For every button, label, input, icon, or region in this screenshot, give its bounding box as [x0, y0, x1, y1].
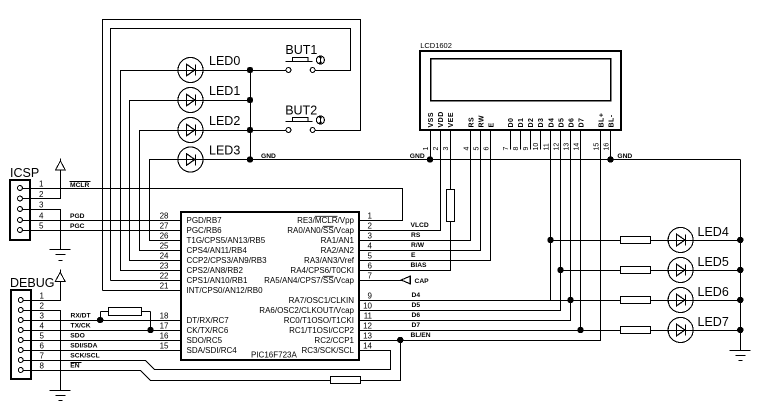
DEBUG pin 4 circle — [18, 328, 23, 333]
LCD pin 9 name label — [528, 118, 535, 128]
wire LED0 cathode to BUT1 — [204, 70, 287, 72]
LCD pin 13 number — [563, 143, 570, 151]
svg-text:LED1: LED1 — [209, 84, 240, 98]
label net D4 — [412, 292, 421, 299]
label net GND (left) — [261, 153, 276, 160]
ICSP pin 2 circle — [18, 196, 23, 201]
PIC pin 25 number — [160, 242, 169, 251]
PIC pin 22 number — [160, 272, 169, 281]
svg-text:27: 27 — [160, 222, 169, 231]
ICSP pin 3 number — [39, 201, 44, 210]
label net SDO — [70, 333, 85, 340]
wire resistor to LED6 — [651, 300, 669, 302]
PIC pin 7 number — [368, 272, 373, 281]
label DEBUG — [10, 276, 54, 290]
svg-text:LED7: LED7 — [698, 315, 729, 329]
LCD pin 3 name label — [448, 112, 455, 128]
wire net BL/EN (PIC pin13 to LCD BL+) — [360, 131, 601, 341]
LCD pin 7 number — [503, 147, 510, 151]
ICSP pin 1 circle — [18, 186, 23, 191]
junction LED6/GND rail — [738, 297, 743, 302]
wire net VLCD (PIC pin2 to LCD VDD) — [360, 131, 441, 231]
svg-text:17: 17 — [160, 322, 169, 331]
LCD pin 13 name label — [568, 118, 575, 128]
svg-text:LED4: LED4 — [698, 225, 729, 239]
svg-text:LED2: LED2 — [209, 114, 240, 128]
wire LED7 cathode to rail — [694, 330, 741, 332]
PIC pin 23 name — [187, 266, 244, 275]
svg-text:RS: RS — [468, 117, 475, 128]
wire LCD pin2 stub — [440, 130, 442, 132]
wire LCD pin16 BL- to GND rail — [610, 130, 612, 160]
DEBUG pin 7 number — [40, 352, 45, 361]
LCD pin 6 name label — [488, 122, 495, 127]
wire net TX/CK (DEBUG pin4 to PIC pin17) — [24, 330, 182, 332]
label net R/W — [411, 242, 425, 249]
wire net CAP (PIC pin7) — [360, 280, 402, 282]
label net RS — [411, 232, 421, 239]
svg-text:VEE: VEE — [448, 112, 455, 128]
PIC pin 10 number — [363, 302, 372, 311]
PIC pin 26 number — [160, 232, 169, 241]
junction VSS/GND — [427, 157, 432, 162]
LCD pin 2 number — [433, 147, 440, 151]
PIC pin 13 number — [363, 332, 372, 341]
LCD pin 5 name label — [478, 115, 485, 128]
ICSP pin 5 circle — [18, 228, 23, 233]
junction LED3/GND rail — [247, 157, 252, 162]
PIC pin 5 number — [368, 252, 373, 261]
label net RX/DT — [71, 313, 92, 320]
wire net LED3 anode — [150, 160, 182, 241]
PIC pin 6 name — [290, 266, 354, 275]
svg-text:CAP: CAP — [415, 278, 430, 285]
power VCC arrow (ICSP) — [55, 159, 65, 171]
svg-text:RC2/CCP1: RC2/CCP1 — [314, 336, 354, 345]
DEBUG pin 6 circle — [18, 348, 23, 353]
svg-text:7: 7 — [368, 272, 373, 281]
PIC pin 15 name — [187, 346, 238, 355]
DEBUG pin 7 circle — [18, 358, 23, 363]
resistor R5 (LED5) — [621, 267, 651, 274]
svg-text:15: 15 — [160, 342, 169, 351]
junction D7/LED7 — [578, 327, 583, 332]
svg-text:2: 2 — [368, 222, 373, 231]
wire LED cathode bus vertical — [250, 71, 252, 160]
svg-text:CPS1/AN10/RB1: CPS1/AN10/RB1 — [187, 276, 248, 285]
junction LED7/GND rail — [738, 327, 743, 332]
LED LED7 — [668, 318, 693, 343]
ICSP pin 1 number — [39, 180, 44, 189]
label net BIAS — [411, 262, 428, 269]
svg-text:TX/CK: TX/CK — [71, 323, 91, 330]
svg-text:16: 16 — [603, 143, 610, 151]
PIC pin 12 name — [289, 326, 354, 335]
svg-text:LED5: LED5 — [698, 255, 729, 269]
PIC pin 24 name — [187, 256, 268, 265]
svg-text:11: 11 — [364, 312, 373, 321]
svg-text:RA6/OSC2/CLKOUT/Vcap: RA6/OSC2/CLKOUT/Vcap — [259, 306, 354, 315]
pushbutton BUT2 — [286, 116, 325, 132]
PIC pin 17 name — [187, 326, 229, 335]
PIC pin 28 name — [187, 216, 223, 225]
svg-text:PGC: PGC — [70, 223, 85, 230]
svg-text:26: 26 — [160, 232, 169, 241]
svg-text:LED3: LED3 — [209, 144, 240, 158]
label LCD1602 — [420, 41, 452, 50]
PIC pin 5 name — [304, 256, 355, 265]
svg-text:D0: D0 — [508, 118, 515, 128]
svg-text:5: 5 — [39, 222, 44, 231]
svg-text:10: 10 — [363, 302, 372, 311]
svg-text:PGD/RB7: PGD/RB7 — [187, 216, 223, 225]
junction BL/EN at PIC pin13 — [398, 337, 403, 342]
LCD pin 14 name label — [578, 118, 585, 128]
svg-text:22: 22 — [160, 272, 169, 281]
PIC pin 27 number — [160, 222, 169, 231]
PIC pin 4 name — [321, 246, 355, 255]
LCD pin 5 number — [473, 147, 480, 151]
wire net D5 (PIC pin10 to LCD D5) — [360, 131, 561, 311]
label net D7 — [412, 322, 421, 329]
ICSP pin 4 number — [39, 212, 44, 221]
LCD pin 16 number — [603, 143, 610, 151]
junction RX/DT resistor tap — [98, 317, 103, 322]
PIC pin 11 number — [364, 312, 373, 321]
svg-text:CK/TX/RC6: CK/TX/RC6 — [187, 326, 229, 335]
ground symbol (DEBUG) — [50, 391, 71, 401]
svg-text:RA2/AN2: RA2/AN2 — [321, 246, 355, 255]
svg-text:LCD1602: LCD1602 — [420, 41, 452, 50]
DEBUG pin 2 number — [40, 302, 45, 311]
svg-text:25: 25 — [160, 242, 169, 251]
LED LED5 — [668, 258, 693, 283]
LCD pin 6 number — [483, 147, 490, 151]
svg-text:8: 8 — [40, 362, 45, 371]
wire ICSP pin2 to VCC — [23, 171, 61, 199]
svg-text:4: 4 — [39, 212, 44, 221]
svg-text:3: 3 — [39, 201, 44, 210]
PIC pin 4 number — [368, 242, 373, 251]
svg-text:RC3/SCK/SCL: RC3/SCK/SCL — [302, 346, 355, 355]
svg-text:13: 13 — [563, 143, 570, 151]
svg-text:D2: D2 — [528, 118, 535, 128]
svg-text:D7: D7 — [578, 118, 585, 128]
svg-text:GND: GND — [617, 153, 632, 160]
LCD pin 12 number — [553, 143, 560, 151]
pushbutton BUT1 — [286, 56, 325, 72]
PIC pin 2 name — [287, 226, 354, 235]
LCD pin 1 name label — [428, 112, 435, 128]
svg-text:D7: D7 — [412, 322, 421, 329]
label PIC16F723A — [251, 351, 297, 360]
resistor R1 (RX-TX) — [101, 308, 151, 331]
label LED7 — [698, 315, 729, 329]
PIC pin 14 name — [302, 346, 355, 355]
svg-text:11: 11 — [543, 143, 550, 150]
svg-text:VLCD: VLCD — [411, 222, 429, 229]
svg-text:24: 24 — [160, 252, 169, 261]
wire LCD pin 9 stub — [530, 130, 532, 150]
svg-text:PGC/RB6: PGC/RB6 — [187, 226, 223, 235]
svg-text:CPS4/AN11/RB4: CPS4/AN11/RB4 — [187, 246, 248, 255]
DEBUG pin 3 number — [40, 312, 45, 321]
svg-text:D5: D5 — [412, 302, 421, 309]
wire ICSP pin3 to GND — [23, 210, 61, 250]
wire net SCK/SCL (DEBUG pin7 to PIC pin14) — [24, 351, 391, 370]
LCD pin 1 number — [423, 147, 430, 151]
wire DEBUG pin1 to VCC — [24, 282, 61, 301]
svg-text:1: 1 — [40, 292, 45, 301]
label net PGC — [70, 223, 85, 230]
svg-text:D4: D4 — [412, 292, 421, 299]
LCD pin 11 number — [543, 143, 550, 150]
svg-text:RE3/MCLR/Vpp: RE3/MCLR/Vpp — [297, 216, 354, 225]
wire LCD pin 10 stub — [540, 130, 542, 150]
junction LED4/GND rail — [738, 237, 743, 242]
svg-text:10: 10 — [533, 143, 540, 151]
svg-text:D1: D1 — [518, 118, 525, 128]
svg-text:MCLR: MCLR — [70, 182, 89, 189]
svg-text:5: 5 — [40, 332, 45, 341]
wire LED5 row — [561, 270, 621, 272]
svg-text:1: 1 — [368, 212, 373, 221]
wire resistor to LED5 — [651, 270, 669, 272]
svg-text:16: 16 — [160, 332, 169, 341]
wire resistor to LED7 — [651, 330, 669, 332]
svg-text:BL+: BL+ — [598, 113, 605, 128]
PIC pin 17 number — [160, 322, 169, 331]
PIC pin 15 number — [160, 342, 169, 351]
wire LED2 cathode to BUT2 — [204, 130, 287, 132]
LCD pin 8 name label — [518, 118, 525, 128]
svg-text:1: 1 — [39, 180, 44, 189]
wire net LED1 anode — [130, 101, 182, 261]
PIC pin 10 name — [259, 306, 354, 315]
resistor R7 (LED7) — [621, 327, 651, 334]
svg-text:RA4/CPS6/T0CKI: RA4/CPS6/T0CKI — [290, 266, 354, 275]
label LED0 — [209, 54, 240, 68]
wire net E (PIC pin5 to LCD E) — [360, 131, 491, 261]
wire pin 22 stub — [111, 280, 182, 282]
PIC pin 11 name — [284, 316, 354, 325]
wire net D7 (PIC pin12 to LED7 resistor) — [360, 330, 621, 332]
svg-text:3: 3 — [443, 147, 450, 151]
svg-text:BUT1: BUT1 — [285, 43, 317, 57]
PIC pin 16 name — [187, 336, 223, 345]
junction LED0 row — [247, 67, 252, 72]
wire GND right rail — [740, 160, 742, 351]
connector DEBUG body — [11, 290, 31, 379]
svg-text:D6: D6 — [412, 312, 421, 319]
svg-text:RC0/T1OSO/T1CKI: RC0/T1OSO/T1CKI — [284, 316, 354, 325]
label net SCK/SCL — [70, 352, 99, 359]
DEBUG pin 5 number — [40, 332, 45, 341]
svg-text:5: 5 — [473, 147, 480, 151]
PIC pin 25 name — [187, 246, 248, 255]
junction LED2 row — [247, 127, 252, 132]
svg-text:RA0/AN0/SS/Vcap: RA0/AN0/SS/Vcap — [287, 226, 354, 235]
svg-text:RW: RW — [478, 115, 485, 128]
svg-text:7: 7 — [40, 352, 45, 361]
wire net GND rail — [204, 159, 741, 161]
svg-text:LED0: LED0 — [209, 54, 240, 68]
ground symbol (ICSP) — [50, 250, 71, 261]
svg-text:SDA/SDI/RC4: SDA/SDI/RC4 — [187, 346, 238, 355]
label ICSP — [10, 166, 39, 180]
svg-text:2: 2 — [40, 302, 45, 311]
svg-text:7: 7 — [503, 147, 510, 151]
label LED1 — [209, 84, 240, 98]
svg-text:6: 6 — [368, 262, 373, 271]
junction TX/CK resistor tap — [148, 327, 153, 332]
wire net R/W (PIC pin4 to LCD RW) — [360, 131, 481, 251]
resistor R6 (LED6) — [621, 297, 651, 304]
svg-text:BL-: BL- — [608, 114, 615, 127]
label net D6 — [412, 312, 421, 319]
label LED6 — [698, 285, 729, 299]
wire net PGC (ICSP pin5 to PIC pin27) — [23, 230, 182, 232]
junction D4/LED4 — [548, 237, 553, 242]
wire LCD pin 8 stub — [520, 130, 522, 150]
svg-text:SDO/RC5: SDO/RC5 — [187, 336, 223, 345]
LCD pin 4 number — [463, 147, 470, 151]
svg-text:D6: D6 — [568, 118, 575, 128]
DEBUG pin 3 circle — [18, 318, 23, 323]
svg-text:ICSP: ICSP — [10, 166, 39, 180]
svg-text:LED6: LED6 — [698, 285, 729, 299]
DEBUG pin 5 circle — [18, 338, 23, 343]
svg-text:12: 12 — [363, 322, 372, 331]
LCD pin 15 name label — [598, 113, 605, 128]
svg-text:RA5/AN4/CPS7/SS/Vcap: RA5/AN4/CPS7/SS/Vcap — [264, 276, 354, 285]
PIC pin 13 name — [314, 336, 354, 345]
PIC pin 9 number — [368, 292, 373, 301]
LCD pin 4 name label — [468, 117, 475, 128]
IC U1 PIC16F723A body — [181, 212, 359, 360]
PIC pin 12 number — [363, 322, 372, 331]
svg-text:28: 28 — [160, 212, 169, 221]
svg-text:18: 18 — [160, 312, 169, 321]
svg-text:RS: RS — [411, 232, 421, 239]
DEBUG pin 8 circle — [18, 368, 23, 373]
wire net MCLR (ICSP pin1 to PIC pin1) — [23, 189, 403, 221]
label net TX/CK — [71, 323, 91, 330]
svg-text:4: 4 — [463, 147, 470, 151]
net flag CAP triangle — [401, 276, 410, 284]
svg-text:E: E — [411, 252, 416, 259]
label net E — [411, 252, 416, 259]
LCD display area — [431, 59, 611, 101]
label net MCLR — [70, 182, 91, 190]
wire net PGD (ICSP pin4 to PIC pin28) — [23, 220, 182, 222]
label LED5 — [698, 255, 729, 269]
PIC pin 26 name — [187, 236, 266, 245]
LED LED1 — [178, 88, 204, 113]
svg-text:GND: GND — [261, 153, 276, 160]
label net EN — [70, 362, 81, 369]
wire resistor to LED4 — [651, 240, 669, 242]
ICSP pin 3 circle — [18, 207, 23, 212]
wire LCD VEE stub to resistor — [450, 131, 452, 190]
svg-text:R/W: R/W — [411, 242, 425, 249]
wire net SDO (DEBUG pin5 to PIC pin16) — [24, 340, 182, 342]
resistor R3 (VEE contrast) — [447, 190, 455, 222]
svg-text:RX/DT: RX/DT — [71, 313, 92, 320]
label LED4 — [698, 225, 729, 239]
svg-text:VDD: VDD — [438, 111, 445, 127]
wire net RB0/BUT2 loop (outer rectangle) — [103, 20, 361, 291]
wire LCD pin 7 stub — [510, 130, 512, 150]
PIC pin 28 number — [160, 212, 169, 221]
svg-text:E: E — [488, 122, 495, 127]
label LED3 — [209, 144, 240, 158]
LED LED4 — [668, 228, 693, 253]
PIC pin 18 number — [160, 312, 169, 321]
svg-text:9: 9 — [368, 292, 373, 301]
svg-text:RA7/OSC1/CLKIN: RA7/OSC1/CLKIN — [289, 296, 355, 305]
svg-text:D4: D4 — [548, 118, 555, 128]
wire net RB1/BUT1 loop (inner rectangle) — [111, 29, 351, 281]
PIC pin 9 name — [289, 296, 355, 305]
LCD pin 9 number — [523, 147, 530, 151]
wire LED1 cathode — [204, 100, 251, 102]
junction BL-/GND — [608, 157, 613, 162]
PIC pin 14 number — [363, 342, 372, 351]
junction LED1 row — [247, 97, 252, 102]
LCD pin 7 name label — [508, 118, 515, 128]
PIC pin 23 number — [160, 262, 169, 271]
LCD pin 16 name label — [608, 114, 615, 127]
svg-text:13: 13 — [363, 332, 372, 341]
label net VLCD — [411, 222, 429, 229]
svg-text:PGD: PGD — [70, 213, 85, 220]
svg-text:GND: GND — [410, 153, 425, 160]
svg-text:RA1/AN1: RA1/AN1 — [321, 236, 355, 245]
wire net BIAS (PIC pin6 to VEE resistor) — [360, 222, 451, 271]
PIC pin 18 name — [187, 316, 230, 325]
svg-text:21: 21 — [160, 282, 169, 291]
LED LED0 — [178, 58, 204, 83]
PIC pin 16 number — [160, 332, 169, 341]
DEBUG pin 1 circle — [18, 298, 23, 303]
label net D5 — [412, 302, 421, 309]
label net GND (right) — [617, 153, 632, 160]
LCD module LCD1602 body — [420, 51, 621, 130]
svg-text:CPS2/AN8/RB2: CPS2/AN8/RB2 — [187, 266, 244, 275]
svg-text:RA3/AN3/Vref: RA3/AN3/Vref — [304, 256, 355, 265]
wire LED4 cathode to rail — [694, 240, 741, 242]
wire LED5 cathode to rail — [694, 270, 741, 272]
wire net D4 (PIC pin9 to LED6 resistor) — [360, 300, 621, 302]
svg-text:BL/EN: BL/EN — [411, 332, 431, 339]
LED LED2 — [178, 118, 204, 143]
LCD pin 3 number — [443, 147, 450, 151]
PIC pin 7 name — [264, 276, 354, 285]
label BUT1 — [285, 43, 317, 57]
svg-text:2: 2 — [433, 147, 440, 151]
svg-text:2: 2 — [39, 190, 44, 199]
resistor R4 (LED4) — [621, 237, 651, 244]
ICSP pin 5 number — [39, 222, 44, 231]
connector ICSP body — [10, 180, 30, 240]
svg-text:BIAS: BIAS — [411, 262, 428, 269]
junction D6/LED6 — [568, 297, 573, 302]
power VCC arrow (DEBUG) — [55, 270, 65, 282]
svg-text:T1G/CPS5/AN13/RB5: T1G/CPS5/AN13/RB5 — [187, 236, 266, 245]
PIC pin 3 name — [321, 236, 355, 245]
svg-text:6: 6 — [483, 147, 490, 151]
